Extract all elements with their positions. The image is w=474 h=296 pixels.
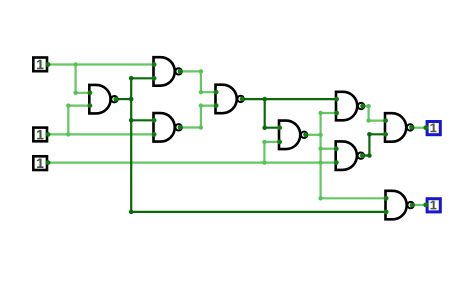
junction net10 [129,76,134,214]
wire net10 vertical trunk [130,78,132,212]
nand gate U9 [384,191,415,220]
junction net1 [73,62,77,95]
wire net11 branch to U5.in1 [265,99,279,128]
junction net4 [199,69,203,94]
nand gate U1 [88,85,119,114]
nand gate U3 [152,113,183,142]
wire net3 branch up to U5.in2 [264,142,279,163]
wire net1 pin1 to U2.in1 [48,63,154,65]
input pin IN2 value 1 [33,128,50,142]
junction net7 [366,104,370,123]
output pin O2 value 1 [423,199,440,212]
wire net6 to U7.in1 [321,148,336,150]
junction net11 [262,97,267,130]
wire net6 to U9.in1 [321,197,386,199]
junction net2 [66,103,70,136]
wire net1 branch down to U1.in1 [76,65,90,93]
nand gate U7 [334,141,365,170]
nand gate U6 [334,92,365,121]
wire net9 U9.out to output pin O2 [414,204,426,206]
wire net6 to U6.in2 [321,112,336,114]
output pin O1 value 1 [423,122,440,135]
wire net12 U7.out to U8.in2 [364,134,385,155]
junction net3 [262,140,266,165]
nand gate U8 [383,113,414,142]
wire net4 U2.out to U4.in1 [182,71,216,92]
wire net8 U8.out to output pin O1 [413,127,425,129]
nand gate U4 [214,85,245,114]
wire net2 branch up to U1.in2 [68,106,89,135]
wire net2 pin2 to U3.in2 [48,133,154,135]
wire net11 U4.out to U6.in1 [244,98,336,100]
wire net10 to U3.in1 [131,119,153,121]
wire net10 U1.out stub [118,98,132,100]
input pin IN1 value 1 [33,58,50,72]
input pin IN3 value 1 [33,156,50,170]
wire net3 pin3 to U7.in2 [48,162,336,164]
junction net5 [199,103,203,129]
wire net10 to U2.in2 [131,77,153,79]
junction net6 [318,111,322,201]
junction net12 [367,132,372,158]
nand gate U2 [152,57,183,86]
wire net7 U6.out to U8.in1 [364,106,385,120]
wire net10 to U9.in2 [131,211,385,213]
wire net6 U5.out stub [308,134,321,136]
nand gate U5 [277,121,308,150]
wire net5 U3.out to U4.in2 [182,106,216,128]
wire net6 vertical trunk [320,113,322,198]
